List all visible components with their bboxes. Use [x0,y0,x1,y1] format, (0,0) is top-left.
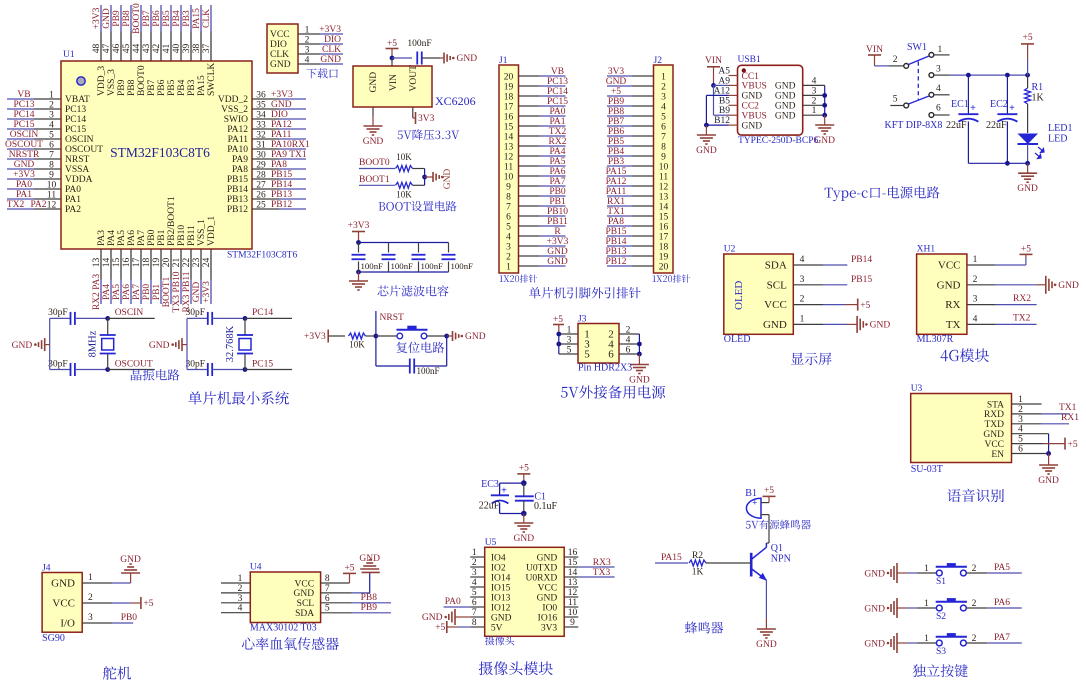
svg-text:14: 14 [659,202,669,212]
svg-text:+5: +5 [553,315,563,325]
svg-text:13: 13 [504,142,514,152]
switch link dashed [917,62,919,100]
U1 pin 1 VBAT [7,98,34,100]
svg-text:+3V3: +3V3 [348,221,370,231]
svg-text:STA: STA [987,400,1004,410]
svg-text:+3V3: +3V3 [319,25,341,35]
svg-text:PA15: PA15 [661,553,682,563]
svg-text:+5: +5 [1021,245,1031,255]
svg-text:DIO: DIO [324,35,341,45]
svg-text:PA7: PA7 [132,284,142,300]
wire buzzer to collector [768,521,770,543]
svg-text:1K: 1K [692,568,704,578]
svg-text:VSS_3: VSS_3 [107,69,117,96]
svg-text:PB7: PB7 [147,79,157,96]
svg-text:32: 32 [256,131,266,141]
svg-text:2: 2 [626,326,631,336]
svg-text:PB0: PB0 [121,613,138,623]
caption download port [307,68,338,78]
caption independent buttons [913,664,968,677]
svg-text:PB11: PB11 [547,217,568,227]
svg-text:5V: 5V [491,623,503,633]
U1 pin 35 VSS_2 [279,108,306,110]
svg-text:PB15: PB15 [605,227,626,237]
svg-text:+5: +5 [1068,440,1078,450]
svg-text:1K: 1K [1032,93,1045,104]
svg-text:VIN: VIN [389,74,399,91]
svg-text:18: 18 [504,92,514,102]
LED1 LED [1018,134,1039,145]
U1 pin 10 PA0 [7,188,34,190]
ground GND left of USB1 [705,125,707,134]
svg-text:PA6: PA6 [994,598,1010,608]
crystal 32.768K [244,318,246,335]
svg-text:BOOT0: BOOT0 [132,3,142,34]
svg-text:PB11: PB11 [187,225,197,246]
svg-text:VCC: VCC [984,440,1004,450]
U1 pin 33 PA12 [279,128,306,130]
U1 pin 20 PB2/BOOT1 [170,249,172,280]
svg-text:32.768K: 32.768K [225,325,236,362]
svg-text:PB7: PB7 [142,10,152,27]
svg-text:SU-03T: SU-03T [911,464,943,475]
svg-text:4: 4 [626,336,631,346]
svg-text:GND: GND [369,72,379,93]
svg-text:GND: GND [775,112,796,122]
ground GND reset [447,335,453,337]
svg-text:TX: TX [946,319,961,331]
svg-text:4: 4 [506,232,511,242]
U1 pin 18 PB0 [150,249,152,280]
svg-text:PB12: PB12 [605,257,626,267]
svg-text:RX1: RX1 [607,197,625,207]
svg-text:PA5: PA5 [117,230,127,246]
net PC15 [245,369,292,371]
svg-text:BOOT1: BOOT1 [359,175,390,185]
svg-text:+3V3: +3V3 [304,332,326,342]
svg-text:PC14: PC14 [13,110,34,120]
caption Type-c power circuit [825,186,940,201]
svg-text:GND: GND [270,60,291,70]
svg-text:GND: GND [271,100,292,110]
svg-text:GND: GND [465,332,486,342]
svg-text:XC6206: XC6206 [435,94,476,108]
svg-text:DIO: DIO [270,40,287,50]
U1 pin 8 VSSA [7,168,34,170]
svg-text:21: 21 [172,258,182,268]
capacitor 100nF filter 4 [448,243,450,253]
svg-text:ML307R: ML307R [917,334,954,345]
svg-text:PB0: PB0 [147,229,157,246]
svg-text:OSCIN: OSCIN [115,308,144,318]
svg-text:RX2: RX2 [1013,294,1031,304]
wire GND A12 [706,94,728,96]
wire +5 to cap [392,57,412,59]
svg-text:KFT DIP-8X8: KFT DIP-8X8 [885,120,943,131]
svg-text:8: 8 [49,161,54,171]
wire +5 rail [934,74,950,76]
ground GND at U3 [1048,454,1050,465]
svg-text:+: + [1009,103,1015,114]
svg-text:24: 24 [202,258,212,268]
svg-text:+3V3: +3V3 [547,237,569,247]
svg-text:PC14: PC14 [252,308,273,318]
wire XH1 GND [996,284,1037,286]
U1 pin 44 BOOT0 [140,5,142,32]
ground GND right of USB1 [824,115,826,124]
U1 pin 24 VDD_1 [210,249,212,280]
svg-text:+3V3: +3V3 [271,90,293,100]
net OSCOUT [108,369,155,371]
svg-text:1: 1 [88,573,93,583]
svg-text:SWIO: SWIO [224,115,248,125]
svg-text:CC2: CC2 [742,102,760,112]
svg-text:16: 16 [122,258,132,268]
svg-text:GND: GND [983,430,1004,440]
svg-text:RX: RX [945,299,960,311]
svg-text:TX3: TX3 [593,568,611,578]
svg-text:PA7: PA7 [549,177,565,187]
svg-text:PA11: PA11 [228,135,249,145]
wire S3 right net PA7 [966,642,987,644]
ground GND buzzer [765,618,767,628]
svg-text:PB14: PB14 [605,237,626,247]
svg-text:CC1: CC1 [742,72,760,82]
svg-text:OSCOUT: OSCOUT [65,145,103,155]
svg-text:18: 18 [659,242,669,252]
svg-text:1: 1 [924,564,929,574]
svg-text:IO12: IO12 [491,603,511,613]
svg-text:+5: +5 [344,563,354,573]
svg-text:PB5: PB5 [167,79,177,96]
svg-text:PA0: PA0 [445,597,461,607]
svg-text:6: 6 [608,348,614,360]
svg-text:22uF: 22uF [986,120,1007,131]
svg-text:IO14: IO14 [491,573,511,583]
svg-text:16: 16 [504,112,514,122]
svg-text:OLED: OLED [733,281,745,310]
svg-text:3: 3 [973,295,978,305]
wire GND B12 [706,124,728,126]
svg-text:PA8: PA8 [608,217,624,227]
svg-text:PA1: PA1 [549,117,565,127]
svg-text:11: 11 [504,162,513,172]
svg-text:GND: GND [359,554,380,564]
svg-text:4: 4 [661,102,666,112]
ground GND at U5 pin7 [454,609,456,625]
svg-text:PA5: PA5 [112,284,122,300]
svg-text:6: 6 [661,122,666,132]
svg-text:VCC: VCC [538,583,558,593]
capacitor C1 0.1uF [523,483,525,496]
svg-text:+3V3: +3V3 [202,281,212,303]
svg-text:+5: +5 [143,599,153,609]
svg-text:VB: VB [551,67,564,77]
svg-text:22: 22 [182,258,192,268]
svg-text:23: 23 [192,258,202,268]
U1 pin 19 PB1 [160,249,162,280]
svg-text:42: 42 [152,44,162,54]
caption BOOT setup circuit [379,201,457,212]
svg-text:VBUS: VBUS [742,82,767,92]
svg-text:4: 4 [49,121,54,131]
svg-text:PA0: PA0 [65,185,81,195]
svg-text:PB8: PB8 [361,593,378,603]
capacitor 100nF reset [375,336,377,366]
svg-text:U0TXD: U0TXD [526,563,557,573]
button S2 [936,605,942,611]
caption chip filter caps [378,285,449,296]
wire J3 left bus [558,334,560,354]
svg-text:45: 45 [122,44,132,54]
svg-text:BOOT0: BOOT0 [359,158,390,168]
wire XH1 VCC to +5 [995,264,997,266]
svg-text:PB3: PB3 [187,79,197,96]
svg-text:33: 33 [256,121,266,131]
svg-text:GND: GND [12,341,33,351]
svg-text:OSCOUT: OSCOUT [5,140,43,150]
svg-text:2: 2 [812,96,817,106]
U1 pin 17 PA7 [140,249,142,280]
svg-text:GND: GND [864,639,885,649]
svg-text:3: 3 [567,336,572,346]
wire S3 left [897,642,907,644]
svg-text:PA9: PA9 [232,155,248,165]
svg-text:PA4: PA4 [102,284,112,300]
svg-text:PA4: PA4 [107,230,117,246]
svg-text:R: R [554,227,561,237]
U4 pin 1 [221,582,250,584]
svg-text:S2: S2 [936,612,946,622]
button reset [376,335,397,337]
svg-text:PA1: PA1 [65,195,81,205]
svg-text:PA8: PA8 [232,165,248,175]
svg-text:PB1: PB1 [152,284,162,301]
svg-text:30pF: 30pF [48,360,68,370]
wire J4 I/O net PB0 [112,622,133,624]
svg-text:PC14: PC14 [65,115,86,125]
svg-text:PA10RX1: PA10RX1 [271,140,310,150]
svg-text:17: 17 [132,258,142,268]
U1 pin 38 PA15 [200,5,202,32]
svg-text:BOOT1: BOOT1 [162,276,172,307]
svg-text:4: 4 [973,314,978,324]
svg-text:1: 1 [924,634,929,644]
wire U4 SCL net PB8 [352,602,392,604]
svg-text:PA2: PA2 [65,205,81,215]
svg-text:PA15: PA15 [192,8,202,29]
svg-text:GND: GND [775,102,796,112]
switch blade 2-1 [909,56,930,65]
svg-text:20: 20 [659,262,669,272]
svg-text:PA2: PA2 [30,200,46,210]
svg-text:GND: GND [775,92,796,102]
svg-text:PC15: PC15 [547,97,568,107]
svg-text:PB15: PB15 [271,170,292,180]
svg-text:2: 2 [88,593,93,603]
svg-text:100nF: 100nF [407,39,431,49]
U4 pin 4 [221,612,250,614]
ground GND power circuit [1027,163,1029,173]
U1 pin 4 PC15 [7,128,34,130]
svg-text:LED1: LED1 [1048,123,1072,134]
ground GND below XC6206 [372,107,374,116]
caption camera module [479,661,553,675]
svg-text:U2: U2 [724,245,736,255]
svg-text:6: 6 [506,212,511,222]
svg-text:USB1: USB1 [738,55,761,65]
svg-text:1: 1 [938,45,943,55]
svg-text:+5: +5 [764,486,774,496]
svg-text:GND: GND [120,555,141,565]
svg-text:VCC: VCC [764,299,787,311]
ground GND at BOOT [432,172,434,182]
svg-text:VSSA: VSSA [65,165,89,175]
U1 pin 29 PA8 [279,168,306,170]
svg-text:PA12: PA12 [606,177,627,187]
U1 pin 9 VDDA [7,178,34,180]
svg-text:10: 10 [504,172,514,182]
svg-text:PC15: PC15 [65,125,86,135]
wire VOUT to 3V3 [412,107,414,118]
svg-text:PA1: PA1 [16,190,32,200]
svg-text:PB12: PB12 [271,200,292,210]
svg-text:TX1: TX1 [607,207,625,217]
svg-text:VDD_1: VDD_1 [207,216,217,246]
wire S1 left [897,572,907,574]
U1 pin 43 PB7 [150,5,152,32]
U1 pin 22 PB11 [190,249,192,280]
svg-text:35: 35 [256,101,266,111]
svg-text:U3: U3 [911,384,923,394]
svg-text:2: 2 [893,55,898,65]
svg-text:40: 40 [172,44,182,54]
svg-text:GND: GND [51,578,75,590]
svg-text:U4: U4 [250,563,262,573]
svg-text:38: 38 [192,44,202,54]
wire BOOT join [424,169,426,186]
svg-text:SG90: SG90 [42,633,65,644]
svg-text:3: 3 [305,46,310,56]
svg-text:SCL: SCL [297,599,315,609]
svg-text:GND: GND [514,534,535,544]
svg-text:17: 17 [504,102,514,112]
svg-text:3: 3 [661,92,666,102]
caption crystal circuit [131,369,180,381]
svg-text:+: + [970,103,976,114]
svg-text:TYPEC-250D-BCP6: TYPEC-250D-BCP6 [738,136,818,146]
svg-text:41: 41 [162,44,172,54]
svg-text:2: 2 [305,36,310,46]
svg-text:7: 7 [506,202,511,212]
caption heart-rate oximeter sensor [242,637,339,650]
svg-text:RX3: RX3 [593,558,611,568]
button S3 [936,640,942,646]
svg-text:10K: 10K [349,340,365,350]
svg-text:PB5: PB5 [608,137,625,147]
svg-text:34: 34 [256,111,266,121]
svg-text:PC14: PC14 [547,87,568,97]
svg-text:RX3 PB11: RX3 PB11 [182,271,192,312]
svg-text:PB14: PB14 [227,185,248,195]
svg-text:S1: S1 [936,577,946,587]
svg-text:PB3: PB3 [182,10,192,27]
svg-text:31: 31 [256,141,266,151]
svg-text:9: 9 [49,171,54,181]
caption display [791,353,832,366]
caption 4G module [941,348,990,362]
svg-text:3V3: 3V3 [418,114,435,124]
svg-text:PB6: PB6 [608,127,625,137]
wire XH1 TX net TX2 [996,323,1037,325]
svg-text:9: 9 [661,152,666,162]
svg-text:GND: GND [192,282,202,303]
U1 pin 30 PA9 [279,158,306,160]
svg-text:VDDA: VDDA [65,175,93,185]
svg-text:VOUT: VOUT [409,65,419,92]
svg-text:PB6: PB6 [157,79,167,96]
svg-text:PB9: PB9 [112,10,122,27]
svg-text:2: 2 [800,295,805,305]
svg-text:PB9: PB9 [361,603,378,613]
U1 pin 14 PA4 [110,249,112,280]
svg-text:5: 5 [49,131,54,141]
svg-text:3: 3 [506,242,511,252]
svg-text:12: 12 [47,201,57,211]
svg-text:VB: VB [17,90,30,100]
svg-text:+: + [752,498,757,508]
svg-text:PB13: PB13 [271,190,292,200]
svg-text:30: 30 [256,151,266,161]
svg-text:2: 2 [506,252,511,262]
svg-text:5: 5 [661,112,666,122]
svg-text:14: 14 [504,132,514,142]
U1 pin 46 PB9 [120,5,122,32]
U1 pin 41 PB5 [170,5,172,32]
svg-text:PA12: PA12 [271,120,292,130]
svg-text:I/O: I/O [60,618,75,630]
svg-text:PB13: PB13 [227,195,248,205]
ground GND above U4 [360,568,379,570]
svg-text:VIN: VIN [866,45,883,55]
svg-text:PC13: PC13 [65,105,86,115]
LED arrows [1038,147,1044,153]
ground GND right of 100nF [440,57,444,59]
svg-text:CLK: CLK [322,45,341,55]
svg-text:RX2 PA3: RX2 PA3 [92,274,102,311]
svg-text:+3V3: +3V3 [13,170,35,180]
svg-text:3: 3 [800,275,805,285]
capacitor 100nF filter 1 [358,243,360,253]
svg-text:GND: GND [937,279,961,291]
svg-text:+5: +5 [860,301,870,311]
svg-text:100nF: 100nF [421,261,444,271]
svg-text:PA5: PA5 [994,563,1010,573]
wire U3 RXD net TX1 [1042,413,1070,415]
svg-text:30pF: 30pF [185,360,205,370]
svg-text:PB9: PB9 [608,97,625,107]
svg-text:PB6: PB6 [152,10,162,27]
U1 pin 47 VSS_3 [110,5,112,32]
svg-text:PC13: PC13 [13,100,34,110]
svg-text:17: 17 [659,232,669,242]
svg-text:10: 10 [47,181,57,191]
svg-text:3V3: 3V3 [608,67,625,77]
svg-text:PA4: PA4 [549,147,565,157]
U1 pin 12 PA2 [7,208,34,210]
svg-text:GND: GND [149,341,170,351]
wire bottom rail power [968,162,1027,164]
